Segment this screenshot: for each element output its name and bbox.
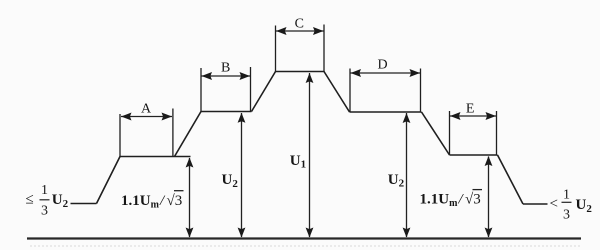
svg-text:√3: √3 [167, 193, 183, 209]
wire: E plateau [450, 154, 498, 156]
vertical dimension arrow U1 [306, 73, 314, 238]
svg-text:U2: U2 [222, 172, 239, 190]
tick C left [275, 26, 277, 72]
vertical dimension arrow U2 left [238, 113, 246, 238]
wire: ramp down to right low level [498, 155, 524, 204]
svg-text:√3: √3 [465, 192, 481, 208]
label 1.1Um/sqrt3 right [420, 190, 483, 210]
tick E right [496, 111, 498, 155]
faint dotted line under baseline [30, 245, 580, 247]
svg-text:B: B [221, 61, 230, 76]
label less-equal one-third U2 (left) [26, 183, 69, 218]
svg-text:3: 3 [41, 203, 48, 218]
tick B left [200, 68, 202, 112]
tick D left [349, 69, 351, 113]
svg-text:/: / [159, 193, 166, 209]
wire: ramp D to E [422, 112, 450, 155]
vertical dimension arrow 1.1Um/sqrt3 left [186, 158, 194, 238]
dimension arrow D [351, 69, 421, 77]
dimension arrow A [121, 113, 172, 121]
svg-text:1: 1 [41, 183, 48, 198]
svg-text:3: 3 [563, 208, 570, 223]
wire: C plateau [276, 71, 325, 73]
tick B right [250, 67, 252, 112]
label less-than one-third U2 (right) [550, 187, 593, 222]
wire: D plateau [350, 111, 422, 113]
svg-text:/: / [458, 192, 465, 208]
wire: B plateau [201, 111, 252, 113]
wire: ramp up to A plateau [97, 157, 121, 204]
tick E left [449, 111, 451, 155]
svg-text:<: < [550, 196, 558, 212]
svg-text:E: E [466, 102, 475, 117]
wire: ramp A to B [175, 112, 202, 157]
label 1.1Um/sqrt3 left [121, 191, 184, 211]
svg-text:1.1Um: 1.1Um [420, 192, 459, 210]
tick C right [323, 25, 325, 73]
svg-text:U2: U2 [576, 197, 593, 215]
wire: left low-level segment [71, 203, 97, 205]
wire: A plateau with extension [120, 156, 191, 158]
dimension arrow B [202, 72, 251, 80]
svg-text:D: D [377, 58, 387, 73]
vertical dimension arrow U2 right [403, 113, 411, 238]
svg-text:U2: U2 [388, 172, 405, 190]
dimension arrow C [276, 27, 324, 35]
svg-text:C: C [295, 17, 304, 32]
svg-text:1.1Um: 1.1Um [121, 193, 160, 211]
svg-text:A: A [141, 102, 152, 117]
tick A left [119, 114, 121, 157]
wire: ramp C to D [324, 72, 350, 113]
baseline (time axis) [27, 237, 581, 239]
wire: ramp B to C [252, 72, 276, 112]
svg-text:U1: U1 [290, 153, 306, 171]
wire: right low-level segment [523, 203, 548, 205]
tick D right [420, 69, 422, 113]
svg-text:≤: ≤ [26, 192, 34, 208]
dimension arrow E [450, 112, 496, 120]
svg-text:1: 1 [563, 187, 570, 202]
svg-text:U2: U2 [52, 192, 69, 210]
tick A right [172, 109, 174, 157]
vertical dimension arrow 1.1Um/sqrt3 right [485, 156, 493, 238]
